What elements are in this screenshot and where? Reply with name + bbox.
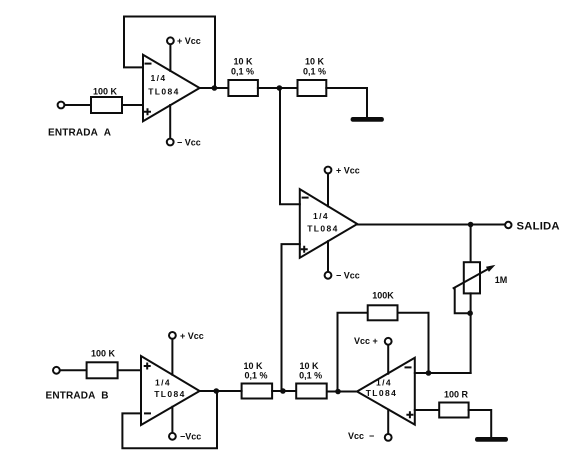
svg-text:10 K: 10 K — [299, 361, 319, 371]
svg-text:+ Vcc: + Vcc — [180, 331, 204, 341]
svg-text:10 K: 10 K — [305, 57, 325, 67]
svg-text:TL084: TL084 — [154, 389, 186, 399]
svg-text:1/4: 1/4 — [313, 211, 329, 221]
svg-text:Vcc −: Vcc − — [348, 431, 374, 441]
svg-text:− Vcc: − Vcc — [177, 137, 201, 147]
svg-text:ENTRADA B: ENTRADA B — [46, 390, 109, 401]
svg-text:+ Vcc: + Vcc — [336, 165, 360, 175]
svg-text:10 K: 10 K — [243, 361, 263, 371]
svg-text:ENTRADA A: ENTRADA A — [48, 127, 111, 138]
svg-text:0,1 %: 0,1 % — [231, 67, 254, 77]
svg-text:1/4: 1/4 — [155, 378, 171, 388]
svg-text:100 R: 100 R — [444, 390, 469, 400]
svg-text:100 K: 100 K — [93, 87, 118, 97]
svg-text:0,1 %: 0,1 % — [303, 67, 326, 77]
svg-text:− Vcc: − Vcc — [336, 271, 360, 281]
svg-text:TL084: TL084 — [307, 224, 339, 234]
svg-text:SALIDA: SALIDA — [517, 221, 560, 233]
svg-text:0,1 %: 0,1 % — [244, 371, 267, 381]
svg-text:TL084: TL084 — [366, 388, 398, 398]
svg-text:100 K: 100 K — [91, 349, 116, 359]
svg-text:−Vcc: −Vcc — [180, 432, 201, 442]
svg-text:Vcc +: Vcc + — [354, 336, 378, 346]
svg-text:1M: 1M — [495, 275, 508, 285]
svg-text:+ Vcc: + Vcc — [177, 36, 201, 46]
svg-text:1/4: 1/4 — [150, 73, 166, 83]
svg-text:0,1 %: 0,1 % — [299, 371, 322, 381]
svg-text:TL084: TL084 — [148, 87, 180, 97]
svg-text:1/4: 1/4 — [376, 377, 392, 387]
svg-text:10 K: 10 K — [233, 57, 253, 67]
svg-text:100K: 100K — [372, 291, 394, 301]
